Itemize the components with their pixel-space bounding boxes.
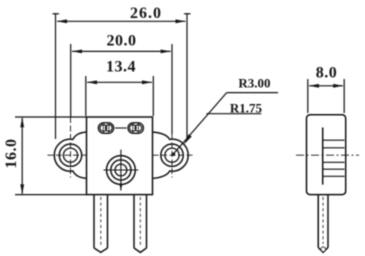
svg-text:R3.00: R3.00 — [238, 76, 270, 91]
svg-text:13.4: 13.4 — [106, 59, 136, 76]
svg-text:16.0: 16.0 — [3, 139, 20, 169]
svg-text:26.0: 26.0 — [130, 5, 162, 22]
svg-text:20.0: 20.0 — [107, 32, 137, 49]
svg-text:R1.75: R1.75 — [230, 100, 263, 115]
svg-text:8.0: 8.0 — [316, 65, 338, 82]
